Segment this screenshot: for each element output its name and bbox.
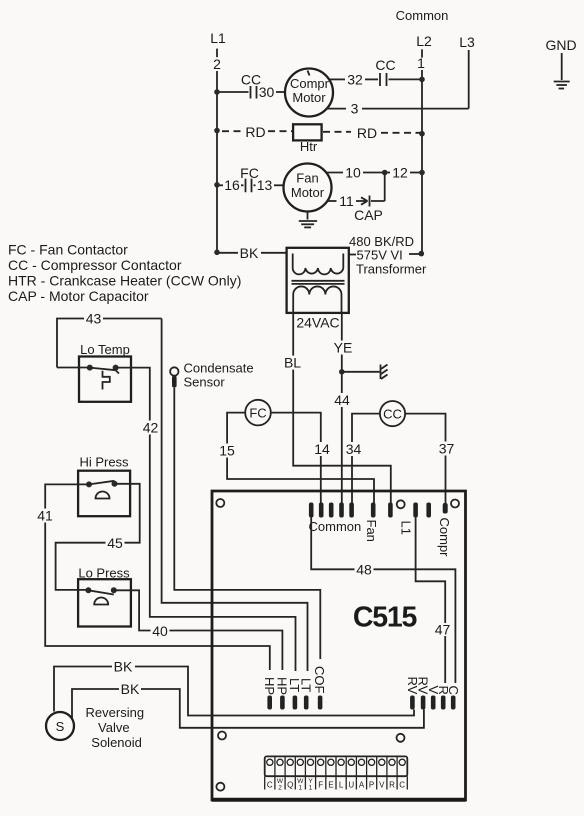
svg-text:575V VI: 575V VI [357, 248, 403, 263]
wire BL secondary lead down to board pin G [293, 313, 391, 504]
wire BK from L1 to transformer [217, 245, 287, 261]
label 47 [434, 621, 451, 637]
connector top pin A Common [309, 503, 314, 518]
svg-text:R: R [389, 781, 395, 790]
connector top pin I [426, 503, 431, 518]
label 48 [355, 561, 374, 577]
wire 48 Common pin to C pin [311, 518, 455, 684]
switch Lo Press low pressure switch [78, 566, 131, 627]
resistor Htr crankcase heater [293, 124, 322, 154]
wire 3 to L3 [327, 101, 469, 117]
svg-text:Compr: Compr [290, 76, 330, 91]
switch Hi Press high pressure switch [78, 455, 130, 517]
svg-text:BK: BK [121, 681, 140, 697]
screw hole top-left [216, 499, 224, 507]
capacitor CAP motor capacitor, wire 11 [327, 173, 385, 224]
svg-text:2: 2 [278, 785, 282, 792]
svg-text:Common: Common [309, 519, 362, 534]
svg-text:BK: BK [240, 245, 259, 261]
ground under fan motor [299, 212, 317, 228]
wire GND lead [561, 53, 563, 80]
svg-text:Hi Press: Hi Press [79, 455, 129, 470]
wire L2 vertical [421, 70, 423, 254]
connector top pin B [319, 503, 324, 518]
svg-text:40: 40 [152, 623, 168, 639]
svg-text:Common: Common [396, 8, 449, 23]
junction dot L1-30 [214, 89, 220, 95]
svg-text:Compr: Compr [437, 518, 452, 558]
connector bottom pin HP1 [267, 696, 272, 710]
screw hole top-right [451, 500, 459, 508]
junction dot L2-12 [419, 170, 425, 176]
svg-text:F: F [318, 781, 323, 790]
label 34 [344, 441, 363, 457]
svg-text:42: 42 [143, 419, 159, 435]
svg-text:CAP: CAP [354, 207, 383, 223]
svg-text:L1: L1 [210, 30, 226, 46]
wire 34 CC coil to pin E [352, 414, 380, 504]
board C515 outline [212, 491, 466, 800]
capacitor CC (compressor contactor contact, line 30) [217, 72, 285, 101]
svg-text:1: 1 [298, 785, 302, 792]
wire BK2 solenoid to RV2 pin [72, 689, 119, 719]
svg-text:BL: BL [284, 355, 301, 371]
wire L3 vertical [468, 50, 470, 109]
svg-text:RD: RD [245, 124, 265, 140]
svg-text:Motor: Motor [292, 90, 326, 105]
terminal strip outline [265, 756, 408, 776]
wire 10-12 row [326, 165, 422, 181]
svg-text:CC - Compressor Contactor: CC - Compressor Contactor [8, 257, 182, 273]
screw hole bottom-left upper [218, 732, 226, 740]
wire L2 tick [421, 49, 423, 57]
svg-text:GND: GND [545, 37, 576, 53]
junction dot L2-32 [419, 77, 425, 83]
svg-text:Valve: Valve [98, 720, 130, 735]
label 42 [141, 419, 160, 435]
svg-text:LT: LT [299, 678, 314, 692]
wire into Lo Temp left terminal [57, 367, 90, 369]
svg-text:24VAC: 24VAC [296, 315, 339, 331]
wire dash to L2 dot [409, 253, 419, 255]
op-amp none: motor Compr M1 [285, 69, 333, 117]
svg-text:L3: L3 [459, 34, 475, 50]
svg-text:A: A [359, 781, 365, 790]
connector bottom pin RV2 [421, 696, 426, 710]
wire YE/44 secondary lead down to board pin D [341, 313, 343, 504]
connector bottom pin LT1 [293, 696, 298, 710]
wire 40 Lo Press right to HP pin [114, 590, 283, 670]
svg-text:V: V [379, 781, 385, 790]
svg-text:P: P [369, 781, 374, 790]
svg-text:44: 44 [334, 392, 350, 408]
wire BK1 solenoid to RV1 pin [54, 667, 112, 712]
ground GND symbol [554, 82, 570, 89]
connector top pin F Fan [371, 503, 376, 518]
svg-text:41: 41 [37, 507, 53, 523]
svg-text:12: 12 [392, 165, 408, 181]
svg-text:Sensor: Sensor [184, 375, 226, 390]
svg-text:S: S [56, 719, 65, 734]
svg-text:14: 14 [314, 441, 330, 457]
svg-text:47: 47 [435, 621, 451, 637]
wire to chassis ground [342, 371, 380, 373]
wire L1 pin to 47 drop [416, 518, 446, 684]
connector top pin C [329, 503, 334, 518]
svg-text:Transformer: Transformer [356, 262, 427, 277]
connector top pin H L1 [413, 503, 418, 518]
svg-text:30: 30 [259, 84, 275, 100]
wire 41 Hi Press left to HP pin [45, 484, 270, 670]
svg-text:C: C [267, 781, 273, 790]
connector top pin G [388, 503, 393, 518]
svg-text:L1: L1 [399, 521, 414, 535]
wire L1 tick [216, 49, 218, 58]
ground chassis symbol [381, 365, 388, 380]
junction dot L1-RD [214, 128, 220, 134]
svg-text:1: 1 [309, 785, 313, 792]
svg-text:FC: FC [249, 406, 266, 421]
svg-text:3: 3 [351, 101, 359, 117]
wire L1 vertical [216, 71, 218, 253]
svg-text:11: 11 [339, 193, 354, 209]
wire 14 FC coil to pin B [271, 413, 321, 504]
sensor Condensate Sensor probe [170, 361, 254, 390]
svg-text:Htr: Htr [300, 139, 318, 154]
junction dot 10-12 corner [382, 170, 388, 176]
svg-text:RD: RD [357, 125, 377, 141]
contactor coil FC [245, 400, 271, 426]
svg-text:45: 45 [107, 535, 123, 551]
connector bottom pin HP2 [280, 696, 285, 710]
label 37 [437, 440, 456, 456]
wire 37 CC coil to pin J [405, 414, 445, 504]
connector bottom pin R [441, 696, 446, 710]
wire 45 Hi Press right to Lo Press left [56, 484, 140, 590]
screw hole top-middle [397, 500, 405, 508]
svg-text:L: L [339, 781, 344, 790]
wire 42 Lo Temp to LT pin [116, 368, 296, 671]
svg-text:COF: COF [312, 666, 327, 694]
label 14 [313, 441, 332, 457]
svg-text:Motor: Motor [291, 185, 325, 200]
junction dot L2-RD [419, 131, 425, 137]
label YE [333, 340, 353, 356]
switch Lo Temp low temperature switch [79, 342, 131, 402]
connector top pin J Compr [443, 503, 448, 514]
wire 43 top run [57, 319, 84, 368]
svg-text:YE: YE [334, 340, 353, 356]
screw hole bottom-middle [397, 734, 405, 742]
connector bottom pin COF [318, 696, 323, 710]
svg-text:34: 34 [346, 441, 362, 457]
svg-text:1: 1 [417, 55, 425, 71]
svg-text:43: 43 [86, 311, 102, 327]
wire RD dashed row [222, 124, 420, 141]
svg-text:CAP - Motor Capacitor: CAP - Motor Capacitor [8, 288, 149, 304]
svg-text:Solenoid: Solenoid [91, 735, 142, 750]
junction dot L2 transformer [419, 251, 425, 257]
motor Fan M2 [284, 164, 332, 212]
svg-text:37: 37 [439, 440, 455, 456]
terminal strip cells and screws [265, 756, 408, 789]
connector top pin E [349, 503, 354, 518]
svg-text:HTR - Crankcase Heater (CCW On: HTR - Crankcase Heater (CCW Only) [8, 273, 241, 289]
svg-text:C515: C515 [353, 602, 418, 634]
svg-text:Fan: Fan [296, 171, 318, 186]
connector bottom pin V [431, 696, 436, 710]
svg-text:U: U [348, 781, 354, 790]
wire 43 right drop to LT pin [162, 319, 308, 672]
svg-text:CC: CC [383, 407, 402, 422]
svg-text:Lo Temp: Lo Temp [80, 342, 130, 357]
connector top pin D [339, 503, 344, 518]
svg-text:L2: L2 [416, 33, 432, 49]
wire 15 FC coil to pin F [227, 413, 374, 504]
svg-text:Fan: Fan [364, 520, 379, 542]
svg-text:E: E [328, 781, 333, 790]
screw hole bottom-left lower [216, 783, 224, 791]
svg-text:10: 10 [345, 165, 361, 181]
svg-text:16: 16 [224, 177, 240, 193]
junction dot L1-BK [214, 250, 220, 256]
svg-text:C: C [446, 686, 461, 695]
label 40 [151, 623, 170, 639]
wire condensate sensor to COF pin [174, 387, 320, 659]
label BL [283, 355, 302, 371]
svg-text:C: C [399, 781, 405, 790]
svg-text:48: 48 [356, 561, 372, 577]
svg-text:Condensate: Condensate [184, 361, 254, 376]
label 44 [333, 392, 353, 408]
svg-text:CC: CC [375, 57, 395, 73]
junction dot YE ground tap [339, 369, 345, 375]
svg-text:BK: BK [114, 659, 133, 675]
contactor coil CC [380, 401, 405, 426]
svg-text:Q: Q [287, 781, 293, 790]
svg-text:Reversing: Reversing [86, 705, 145, 720]
junction dot L1-FC [214, 182, 220, 188]
wire 32 with capacitor CC [330, 57, 423, 88]
connector bottom pin C [451, 696, 456, 710]
svg-text:13: 13 [257, 177, 273, 193]
svg-text:2: 2 [213, 56, 221, 72]
svg-text:15: 15 [219, 442, 235, 458]
svg-text:FC - Fan Contactor: FC - Fan Contactor [8, 242, 128, 258]
label 15 [218, 442, 237, 458]
wire transformer primary right lead 575V [349, 254, 356, 256]
svg-text:32: 32 [347, 72, 363, 88]
solenoid S reversing valve [46, 712, 74, 740]
connector bottom pin RV1 [410, 696, 415, 710]
label 45 [106, 535, 125, 551]
transformer T1 480/575-24V [287, 248, 349, 313]
capacitor FC (fan contactor contact, 16-13) [217, 165, 284, 193]
connector bottom pin LT2 [304, 696, 309, 710]
label 41 [36, 507, 55, 523]
terminal strip labels [267, 778, 405, 792]
